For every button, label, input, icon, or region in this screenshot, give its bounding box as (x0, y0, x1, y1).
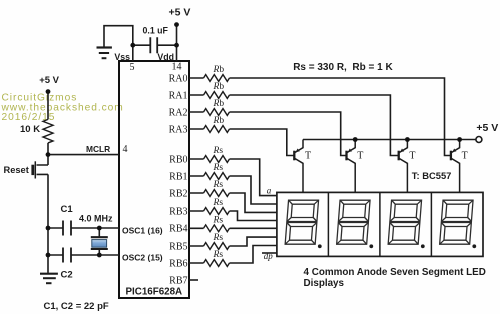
svg-text:+5 V: +5 V (476, 122, 498, 134)
svg-text:RB3: RB3 (169, 206, 187, 217)
svg-text:RA3: RA3 (169, 124, 188, 135)
svg-text:RB0: RB0 (169, 154, 187, 165)
svg-text:4.0 MHz: 4.0 MHz (79, 213, 113, 223)
svg-text:C2: C2 (61, 269, 73, 280)
svg-text:Rs = 330 R, Rb = 1 K: Rs = 330 R, Rb = 1 K (293, 62, 393, 73)
svg-text:+5 V: +5 V (169, 6, 191, 18)
svg-text:Reset: Reset (4, 165, 29, 175)
svg-text:0.1 uF: 0.1 uF (143, 25, 169, 35)
svg-text:Vdd: Vdd (157, 52, 174, 62)
svg-text:C1: C1 (61, 204, 74, 215)
svg-text:T: T (305, 151, 311, 162)
svg-text:Rs: Rs (213, 216, 224, 226)
svg-text:Rb: Rb (213, 116, 225, 126)
svg-text:Rs: Rs (213, 146, 224, 156)
svg-text:T: T (409, 151, 415, 162)
svg-text:RA0: RA0 (169, 73, 188, 84)
svg-text:Rs: Rs (213, 250, 224, 260)
svg-text:OSC2 (15): OSC2 (15) (122, 252, 163, 262)
svg-text:RB2: RB2 (169, 188, 187, 199)
svg-text:RA2: RA2 (169, 107, 188, 118)
svg-text:dp: dp (264, 251, 274, 261)
svg-text:5: 5 (130, 62, 135, 73)
svg-text:RB4: RB4 (169, 224, 187, 235)
svg-text:10 K: 10 K (20, 124, 40, 135)
svg-text:Rb: Rb (213, 82, 225, 92)
svg-text:RB5: RB5 (169, 241, 187, 252)
svg-text:C1, C2 = 22 pF: C1, C2 = 22 pF (44, 301, 109, 312)
svg-text:Rb: Rb (213, 65, 225, 75)
svg-text:OSC1 (16): OSC1 (16) (122, 225, 163, 235)
svg-text:Rs: Rs (213, 180, 224, 190)
svg-text:T: T (357, 151, 363, 162)
svg-text:MCLR: MCLR (86, 144, 110, 154)
svg-text:Rs: Rs (213, 233, 224, 243)
svg-text:T: T (462, 151, 468, 162)
svg-text:RB7: RB7 (169, 275, 187, 286)
svg-text:RB1: RB1 (169, 171, 187, 182)
svg-text:RA1: RA1 (169, 90, 188, 101)
svg-text:Rb: Rb (213, 99, 225, 109)
svg-text:Rs: Rs (213, 198, 224, 208)
svg-text:PIC16F628A: PIC16F628A (126, 286, 183, 297)
svg-text:Rs: Rs (213, 163, 224, 173)
svg-text:+5 V: +5 V (39, 75, 59, 86)
svg-text:RB6: RB6 (169, 258, 187, 269)
svg-text:14: 14 (172, 62, 182, 73)
svg-text:T: BC557: T: BC557 (412, 170, 452, 181)
svg-text:Displays: Displays (304, 278, 345, 289)
svg-text:4 Common Anode Seven Segment L: 4 Common Anode Seven Segment LED (304, 267, 486, 278)
svg-text:Vss: Vss (114, 52, 130, 62)
svg-text:4: 4 (123, 144, 128, 155)
svg-text:a: a (267, 186, 272, 196)
